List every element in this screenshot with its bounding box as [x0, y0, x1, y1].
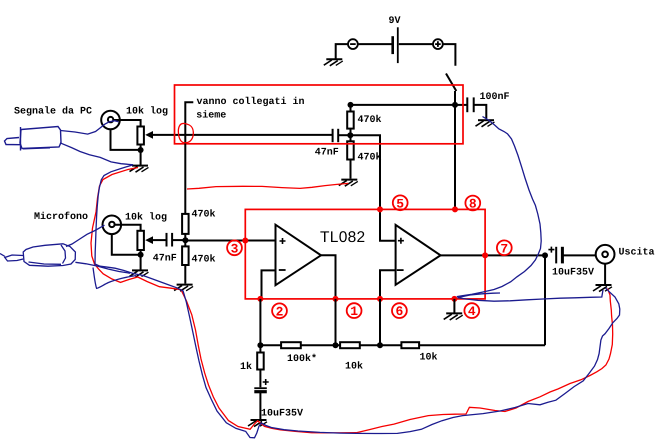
svg-text:4: 4 [468, 304, 476, 319]
wire switch down to pin 8 column [454, 91, 456, 209]
svg-text:6: 6 [396, 304, 404, 319]
red pin dots [242, 206, 488, 302]
red ellipse around junction [178, 123, 193, 142]
wire to switch [443, 44, 456, 66]
jack J2 (Microfono) [103, 216, 122, 235]
blue line output ground back to pin 4 [458, 290, 604, 301]
svg-text:10uF35V: 10uF35V [552, 268, 594, 279]
pin label 7 [497, 240, 512, 255]
blue mic cable jack to plug [66, 225, 105, 246]
U1A plus sign [280, 238, 286, 244]
blue PC cable (tip to jack) [61, 121, 119, 134]
op-amp U1A triangle [276, 225, 322, 286]
blue small loop below mic plug [93, 268, 136, 289]
node pin2 bottom [257, 342, 263, 348]
wire mic pot wiper to 47nF [153, 239, 167, 241]
pot wiper arrowhead (PC) [145, 131, 153, 139]
svg-text:vanno collegati in: vanno collegati in [197, 96, 305, 108]
node: rail left end [348, 102, 354, 108]
ground (Uscita) [593, 285, 612, 292]
svg-text:TL082: TL082 [320, 229, 365, 246]
resistor R4 470k lower (mic) [182, 240, 189, 283]
svg-text:Segnale da PC: Segnale da PC [14, 106, 92, 118]
svg-text:10k log: 10k log [126, 106, 168, 118]
battery B1 short plate [391, 36, 394, 54]
blue arc 100nF ground to pin 4 area [457, 117, 541, 297]
wire pin1 down [335, 299, 337, 345]
svg-text:10uF35V: 10uF35V [261, 409, 303, 420]
U1B plus sign [398, 238, 404, 244]
wire dangling 470k top with hook [185, 102, 193, 214]
svg-text:470k: 470k [358, 114, 382, 126]
svg-text:sieme: sieme [196, 109, 226, 121]
node: rail right end [452, 102, 458, 108]
ground (pin 4) [444, 313, 463, 320]
wire battery ground corner [336, 44, 348, 59]
wire mic node to pin 3 [185, 240, 245, 242]
node mic divider [182, 237, 188, 243]
ground (PC pot) [130, 166, 149, 173]
svg-text:47nF: 47nF [315, 148, 339, 159]
pin label 3 [227, 240, 242, 255]
wire pin6 down [379, 299, 381, 345]
switch SW1 blade [446, 74, 456, 92]
blue PC cable sleeve line to ground [60, 143, 133, 165]
svg-text:470k: 470k [192, 253, 216, 265]
svg-text:9V: 9V [389, 16, 401, 27]
svg-text:47nF: 47nF [153, 254, 177, 265]
svg-text:10k: 10k [345, 361, 363, 373]
svg-text:7: 7 [500, 241, 508, 256]
svg-text:10k log: 10k log [125, 212, 167, 224]
wire jack to ground [604, 264, 606, 285]
node pin6 bottom [377, 342, 383, 348]
wire bottom rail [260, 344, 545, 346]
ground (470k divider mic) [174, 285, 193, 292]
pot wiper arrowhead (mic) [145, 236, 153, 244]
ground (bottom 10uF) [248, 420, 267, 427]
svg-text:100k*: 100k* [287, 353, 317, 365]
node pin1 bottom [333, 342, 339, 348]
wire U1B - input to pin 6 [380, 270, 396, 299]
svg-text:Microfono: Microfono [34, 211, 88, 223]
svg-text:1: 1 [350, 304, 358, 319]
wire pin4 to ground [453, 299, 455, 313]
U1B minus sign [397, 269, 404, 271]
node pot bottom [138, 147, 144, 153]
ground (100nF) [476, 120, 495, 127]
resistor R8 1k [257, 345, 264, 387]
wire [358, 43, 392, 45]
wire node to pin5 column [350, 135, 380, 209]
svg-text:10k: 10k [420, 352, 438, 364]
resistor R7 10k [401, 342, 419, 348]
blue mic plug body [0, 244, 75, 266]
capacitor C2 47nF (PC) [333, 129, 351, 142]
wire output node down to rail [544, 255, 546, 345]
svg-text:1k: 1k [240, 361, 252, 373]
red box TL082 [245, 209, 485, 299]
pin label 5 [393, 195, 408, 210]
blue ground bus left descent and bottom sweep [95, 165, 620, 438]
wire jack to pot top [115, 225, 141, 231]
capacitor C3 47nF (mic) [167, 233, 186, 247]
svg-text:2: 2 [276, 304, 284, 319]
pin label 6 [392, 303, 407, 318]
U1A minus sign [279, 269, 286, 271]
resistor R2 470k lower [347, 135, 354, 178]
op-amp U1B triangle [396, 225, 441, 285]
wire PC pot wiper to 47nF [153, 134, 333, 136]
node output [542, 252, 548, 258]
wire U1A - input feedback to pin 2 [262, 270, 276, 299]
svg-text:5: 5 [396, 196, 404, 211]
red box: vanno collegati [175, 85, 464, 144]
wire pot bottom / jack sleeve [111, 129, 141, 165]
wire pin5 to U1B + input [380, 209, 396, 240]
node pot bottom [138, 252, 144, 258]
potentiometer P2 10k log body [137, 231, 144, 250]
svg-text:8: 8 [469, 197, 477, 212]
wire U1A output to pin 1 [321, 255, 336, 299]
battery B1 long plate [397, 27, 399, 63]
red freehand ground bus (left inputs to bottom to output) [91, 168, 613, 433]
node between 470k pair [347, 132, 353, 138]
pin label 4 [464, 303, 479, 318]
pin label 8 [465, 196, 480, 211]
wire pin3 to U1A + input [245, 240, 275, 242]
svg-text:Uscita: Uscita [619, 247, 655, 259]
svg-text:100nF: 100nF [480, 92, 510, 103]
capacitor C5 10uF35V output, plus sign [548, 247, 595, 264]
resistor R3 470k upper (mic) [182, 214, 189, 240]
battery plus terminal circle [433, 39, 443, 49]
capacitor C4 10uF35V electrolytic [254, 379, 268, 419]
red freehand line to PC divider ground [187, 183, 348, 189]
wire jack to pot top [114, 120, 141, 127]
jack J3 Uscita [596, 245, 615, 264]
wire U1B output to pin 7 and out [441, 254, 546, 256]
battery minus terminal circle [348, 39, 358, 49]
svg-text:470k: 470k [358, 152, 382, 164]
pin label 1 [347, 303, 362, 318]
capacitor C1 100nF [455, 97, 486, 118]
ground (battery negative) [324, 59, 343, 66]
svg-text:470k: 470k [192, 208, 216, 220]
ground (470k divider PC) [339, 180, 358, 187]
wire top supply rail [351, 104, 456, 106]
pin label 2 [272, 303, 287, 318]
wire pin2 down [259, 299, 261, 345]
resistor R1 470k upper [347, 105, 354, 135]
jack J1 (Segnale da PC) [101, 111, 120, 130]
resistor R5 100k* [281, 342, 301, 348]
resistor R6 10k [340, 342, 360, 348]
potentiometer P1 10k log body [137, 127, 144, 145]
blue PC plug body [5, 127, 62, 151]
wire pot bottom / jack sleeve [112, 234, 141, 269]
svg-text:3: 3 [231, 241, 239, 256]
ground (mic pot) [130, 270, 149, 277]
blue mic plug sleeve to mic ground [75, 262, 130, 273]
wire [399, 43, 433, 45]
